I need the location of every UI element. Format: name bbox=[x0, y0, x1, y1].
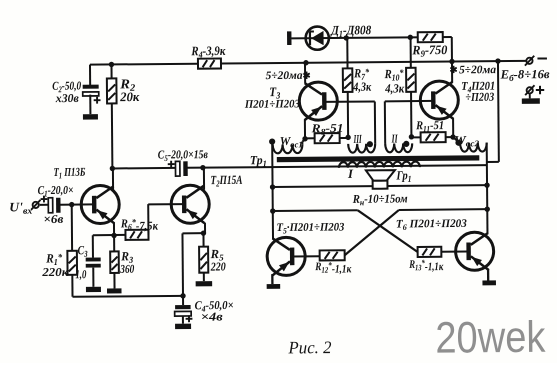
svg-text:Т5·П201÷П203: Т5·П201÷П203 bbox=[276, 221, 344, 235]
svg-text:1,0: 1,0 bbox=[75, 267, 86, 281]
svg-text:360: 360 bbox=[119, 262, 134, 276]
svg-text:×4в: ×4в bbox=[201, 309, 224, 323]
svg-text:220: 220 bbox=[210, 259, 226, 273]
svg-text:4,3к: 4,3к bbox=[384, 81, 405, 95]
svg-text:×6в: ×6в bbox=[43, 212, 64, 226]
svg-text:4,3к: 4,3к bbox=[352, 80, 371, 94]
svg-text:II: II bbox=[391, 131, 399, 145]
svg-text:Рис. 2: Рис. 2 bbox=[287, 337, 331, 357]
svg-text:20wek: 20wek bbox=[435, 313, 546, 363]
svg-text:R11-51: R11-51 bbox=[415, 118, 444, 134]
svg-text:Т1 П13Б: Т1 П13Б bbox=[53, 165, 85, 181]
svg-text:5÷20ма: 5÷20ма bbox=[459, 64, 496, 76]
svg-text:П201÷П203: П201÷П203 bbox=[244, 98, 300, 110]
svg-text:÷П203: ÷П203 bbox=[465, 90, 494, 104]
svg-text:20к: 20к bbox=[119, 89, 139, 104]
svg-text:Т6 П201÷П203: Т6 П201÷П203 bbox=[396, 218, 467, 232]
svg-text:5÷20ма: 5÷20ма bbox=[266, 70, 303, 82]
svg-text:Еб-8÷16в: Еб-8÷16в bbox=[500, 67, 551, 83]
svg-text:III: III bbox=[353, 132, 362, 146]
svg-text:Т2П15А: Т2П15А bbox=[210, 173, 242, 189]
svg-text:220к: 220к bbox=[41, 265, 69, 279]
svg-text:C1-20,0×: C1-20,0× bbox=[38, 183, 74, 199]
svg-text:х30в: х30в bbox=[55, 91, 80, 105]
svg-text:R8-51: R8-51 bbox=[310, 121, 343, 137]
